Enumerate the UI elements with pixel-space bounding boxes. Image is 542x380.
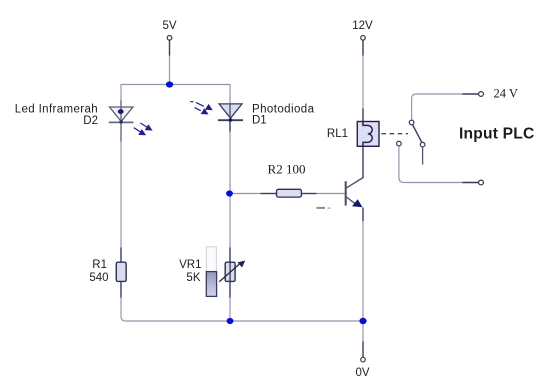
svg-text:Input PLC: Input PLC — [459, 126, 534, 143]
svg-text:D2: D2 — [83, 115, 98, 127]
svg-text:VR1: VR1 — [179, 259, 201, 271]
svg-text:5V: 5V — [162, 20, 176, 32]
svg-text:D1: D1 — [252, 115, 267, 127]
svg-text:24 V: 24 V — [494, 87, 518, 101]
svg-text:12V: 12V — [352, 20, 373, 32]
svg-text:Led Inframerah: Led Inframerah — [15, 104, 98, 116]
svg-text:R1: R1 — [92, 259, 107, 271]
svg-text:5K: 5K — [186, 272, 200, 284]
svg-text:540: 540 — [89, 272, 108, 284]
svg-text:RL1: RL1 — [327, 128, 348, 140]
svg-text:0V: 0V — [355, 367, 369, 379]
svg-text:Photodioda: Photodioda — [252, 103, 315, 115]
svg-text:R2 100: R2 100 — [268, 161, 306, 176]
